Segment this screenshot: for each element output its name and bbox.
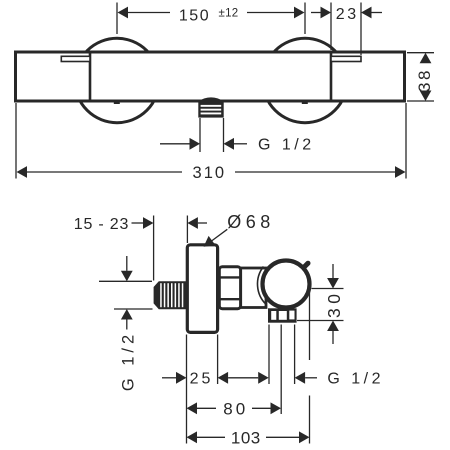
dim 30 arrow down tail	[332, 264, 334, 278]
dim 15-23 arrow right	[187, 217, 198, 229]
dim 310 line left	[27, 171, 182, 173]
shared tail 25 to G12	[228, 377, 258, 379]
union nut facet line bottom	[221, 298, 240, 300]
dim 150 arrow right	[294, 7, 305, 19]
dim 30 ext line top	[312, 288, 344, 290]
svg-text:G 1/2: G 1/2	[120, 331, 138, 391]
thermostat knob circle	[263, 261, 310, 308]
bottom outlet window 2	[279, 311, 287, 320]
nipple thread slot 7	[182, 283, 184, 307]
dim 38 arrow up	[420, 53, 432, 64]
bottom outlet nut	[268, 308, 297, 322]
dim 38 ext line top	[407, 52, 434, 54]
dim G12 top ext line left	[199, 118, 201, 152]
dim G12 bottom tail right	[305, 377, 317, 379]
dim 103 arrow left	[187, 431, 198, 443]
left G12 ext line top	[99, 280, 152, 282]
left G12 arrow up	[121, 309, 133, 320]
dim 25 arrow left	[176, 372, 187, 384]
outlet thread stripe 3	[201, 113, 222, 115]
dim 25 arrow right	[218, 372, 229, 384]
dim G12 top arrow left	[190, 138, 201, 150]
svg-text:25: 25	[190, 371, 214, 388]
dim 25 tail left	[162, 377, 176, 379]
bottom ext line outlet center	[280, 325, 282, 415]
dim 150 line right	[247, 12, 295, 14]
svg-text:15 - 23: 15 - 23	[74, 216, 129, 233]
outlet thread stripe 2	[201, 109, 222, 111]
valve body	[241, 268, 267, 308]
svg-text:±12: ±12	[218, 8, 238, 20]
dim 30 arrow up tail	[332, 331, 334, 344]
svg-text:Ø68: Ø68	[227, 212, 275, 232]
dim 23 arrow right	[361, 7, 372, 19]
dim 15-23 arrow left	[143, 217, 154, 229]
dim 80 line left	[197, 407, 216, 409]
dim 103 line right	[266, 436, 299, 438]
wall nipple threaded	[154, 281, 186, 309]
dim 310 arrow left	[17, 166, 28, 178]
dim 23 ext line right	[360, 3, 362, 56]
outlet threaded body	[198, 100, 223, 118]
dim 15-23 tail right	[198, 222, 207, 224]
svg-text:30: 30	[324, 290, 344, 318]
dim 23 tail left	[311, 12, 321, 14]
bottom ext line outlet left	[268, 325, 270, 385]
svg-text:23: 23	[336, 6, 359, 23]
right end cap line	[330, 54, 333, 100]
svg-text:150: 150	[179, 8, 210, 25]
dim 38 ext line bottom	[407, 100, 434, 102]
dim 15-23 ext line left	[153, 216, 155, 281]
dim 30 arrow down	[327, 278, 339, 289]
svg-text:38: 38	[415, 68, 434, 92]
nipple thread slot 1	[160, 283, 162, 307]
union nut facet line top	[221, 276, 240, 278]
outlet dome	[198, 97, 224, 101]
dim 150 ext line right	[304, 3, 306, 35]
right drain nub	[302, 101, 308, 104]
dim 103 arrow right	[299, 431, 310, 443]
bottom ext line outlet right	[294, 325, 296, 385]
mixer bar body	[16, 52, 405, 101]
svg-text:103: 103	[231, 429, 261, 448]
bottom ext line disc back	[217, 335, 219, 385]
dim 80 line right	[252, 407, 271, 409]
dim 150 ext line left	[116, 3, 118, 35]
left drain nub	[114, 101, 120, 104]
rear flange crescent arc	[257, 267, 266, 305]
left G12 arrow down tail	[126, 256, 128, 271]
bottom ext line knob right upper	[309, 290, 311, 360]
dim 80 arrow left	[187, 402, 198, 414]
dim 310 arrow right	[395, 166, 406, 178]
dim G12 bottom arrow right	[295, 372, 306, 384]
svg-text:G 1/2: G 1/2	[258, 137, 315, 154]
nipple thread slot 2	[164, 283, 166, 307]
svg-text:80: 80	[223, 400, 248, 419]
dim 310 ext line left	[15, 103, 17, 179]
dim 310 line right	[235, 171, 395, 173]
bottom ext line knob right lower	[309, 396, 311, 444]
dim 38 arrow down	[420, 91, 432, 102]
dim G12 top tail left	[160, 143, 190, 145]
nipple thread slot 5	[175, 283, 177, 307]
dim 23 ext line left	[330, 3, 332, 51]
bottom outlet window 3	[289, 311, 294, 320]
dim 80 arrow right	[271, 402, 282, 414]
nipple thread slot 4	[171, 283, 173, 307]
escutcheon circle right	[263, 38, 347, 122]
left G12 arrow down	[121, 271, 133, 282]
left G12 ext line bottom	[114, 308, 153, 310]
left tab	[61, 56, 90, 61]
right tab	[331, 56, 361, 61]
dim 150 line left	[128, 12, 170, 14]
outlet thread stripe 1	[201, 105, 222, 107]
dim 30 ext line bottom	[297, 320, 344, 322]
dim G12 top arrow right	[224, 138, 235, 150]
dim 103 line left	[197, 436, 225, 438]
dim 23 tail right	[372, 12, 383, 14]
dim G12 bottom arrow left	[258, 372, 269, 384]
svg-text:G 1/2: G 1/2	[327, 371, 384, 388]
bottom outlet window 1	[271, 311, 276, 320]
nipple thread slot 6	[178, 283, 180, 307]
dim 310 ext line right	[405, 103, 407, 179]
left end cap line	[89, 54, 92, 100]
left G12 arrow up tail	[126, 320, 128, 330]
dim 30 arrow up	[327, 321, 339, 332]
safety stop button	[304, 263, 308, 267]
diameter 68 leader arrow	[204, 236, 216, 247]
svg-text:310: 310	[193, 164, 227, 182]
dim 150 arrow left	[118, 7, 129, 19]
dim 23 arrow left	[321, 7, 332, 19]
diameter 68 leader line	[211, 229, 227, 241]
nipple thread slot 3	[167, 283, 169, 307]
union nut	[219, 267, 240, 309]
bottom ext line wall face	[186, 335, 188, 444]
escutcheon circle left	[75, 38, 159, 122]
escutcheon disc side	[187, 245, 217, 333]
dim 15-23 ext line right	[186, 216, 188, 244]
dim 15-23 tail left	[132, 222, 144, 224]
dim G12 top ext line right	[223, 118, 225, 152]
dim G12 top tail right	[234, 143, 247, 145]
